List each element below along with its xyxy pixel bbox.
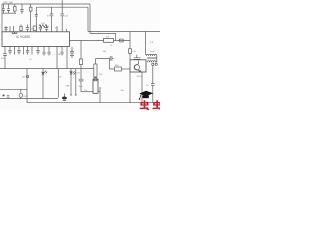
svg-text:104: 104 [8, 1, 13, 5]
svg-text:9013: 9013 [137, 76, 143, 78]
svg-text:IC KD288: IC KD288 [16, 35, 30, 39]
svg-text:1kΩ: 1kΩ [78, 86, 82, 88]
svg-text:473: 473 [3, 1, 8, 5]
